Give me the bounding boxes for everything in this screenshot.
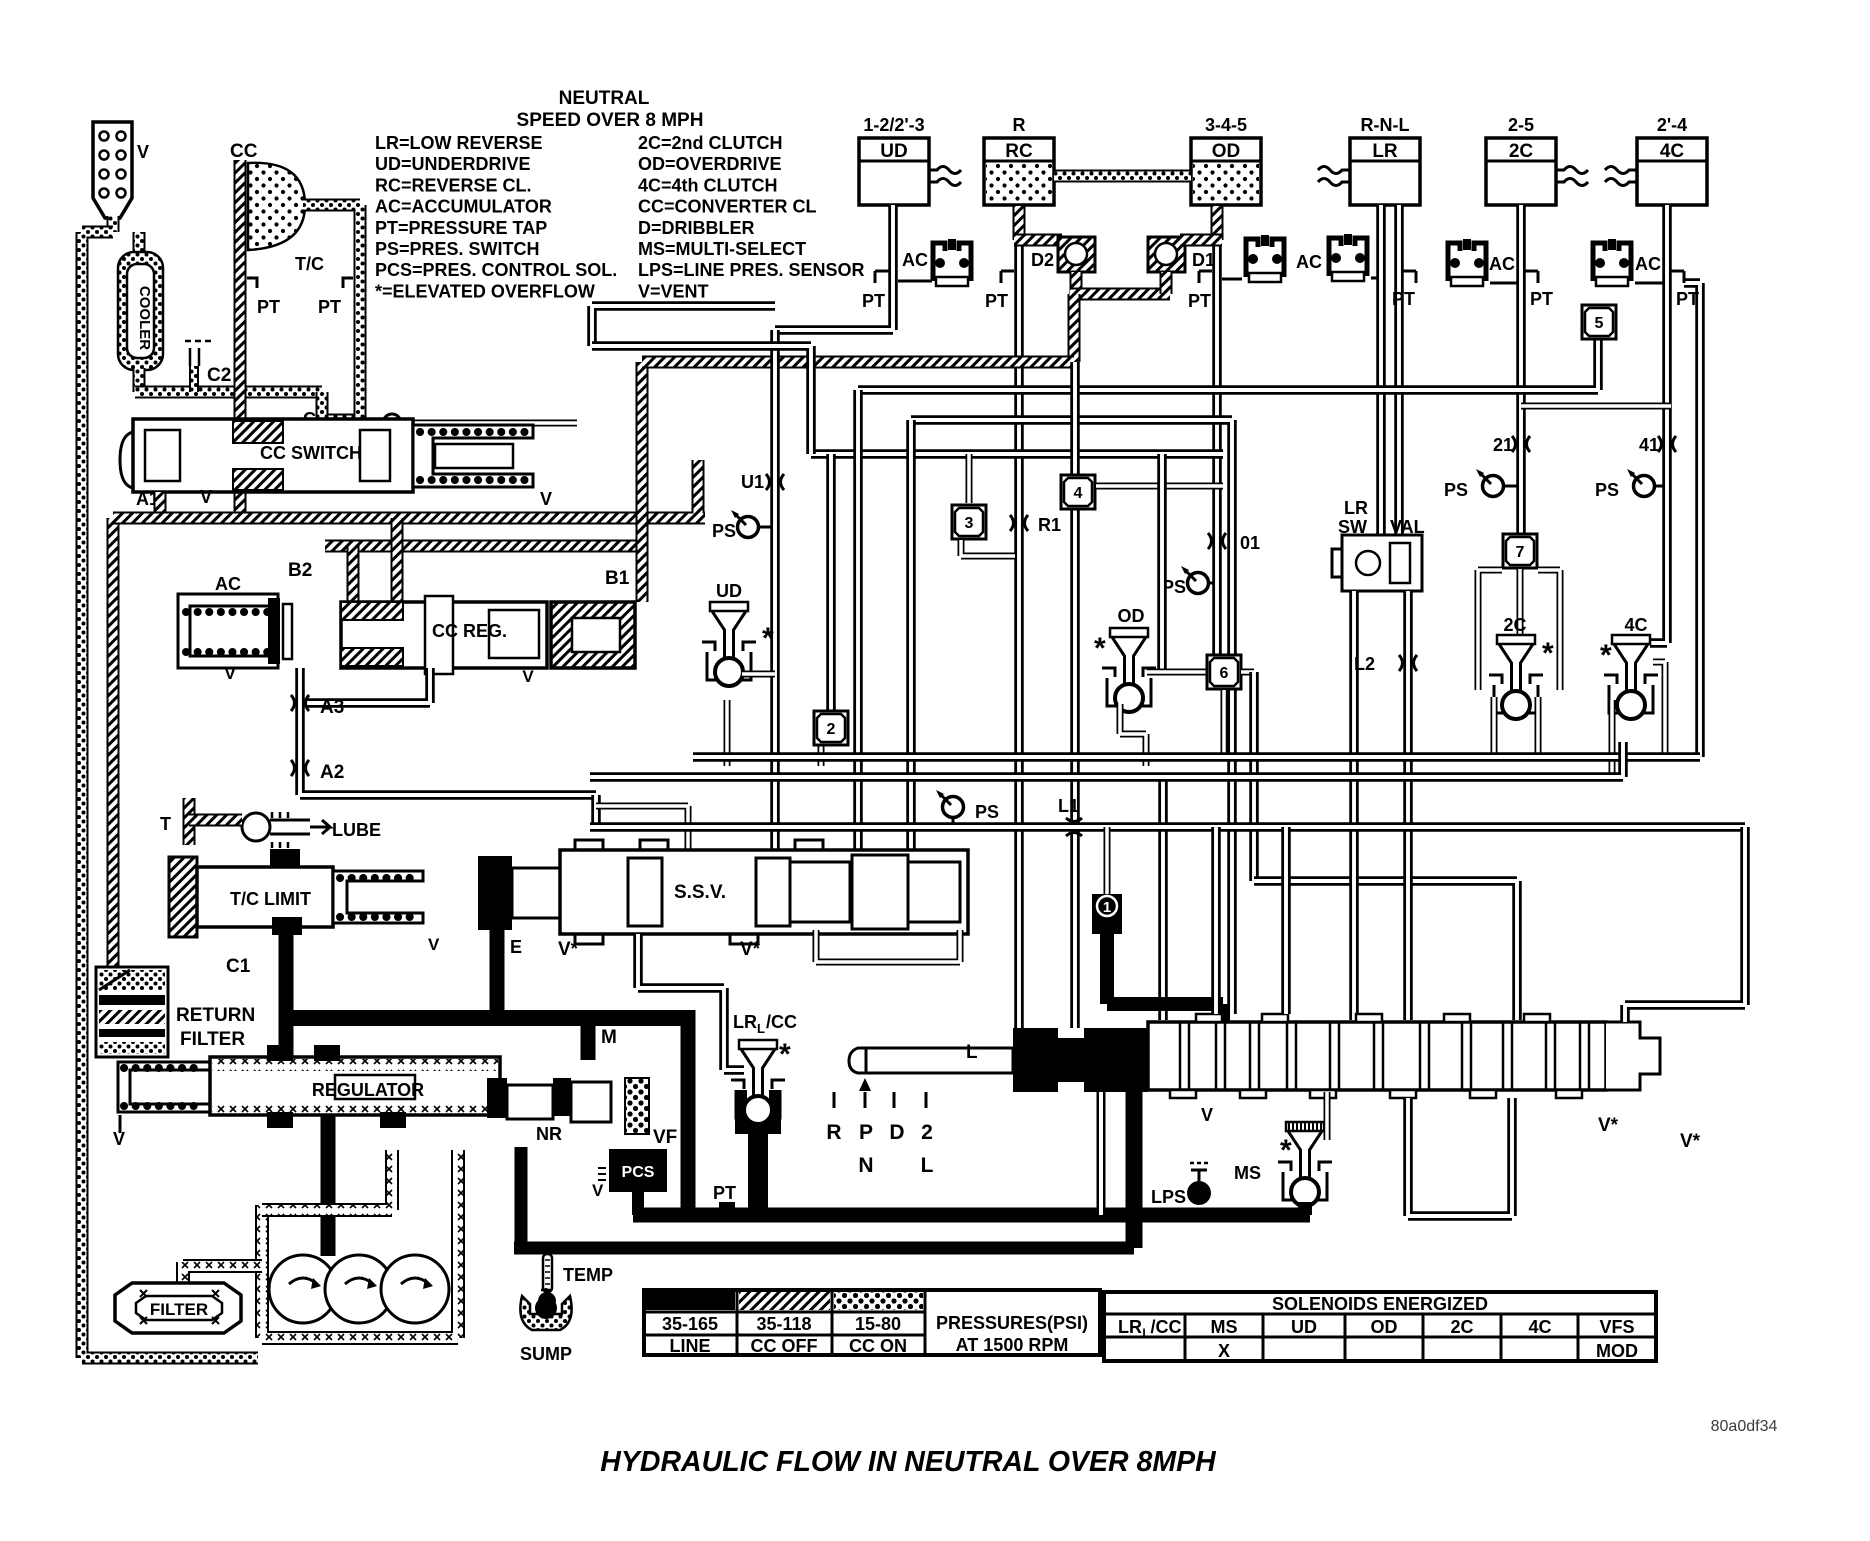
svg-text:NEUTRAL: NEUTRAL [559, 88, 650, 109]
svg-text:S.S.V.: S.S.V. [674, 882, 726, 903]
svg-text:PRESSURES(PSI): PRESSURES(PSI) [936, 1313, 1088, 1333]
svg-text:5: 5 [1595, 315, 1604, 332]
solenoid UD [702, 581, 775, 766]
svg-text:*: * [779, 1038, 791, 1071]
wire left feeder elbow [592, 306, 775, 346]
node L2 [1354, 654, 1417, 674]
lube circuit [160, 812, 381, 848]
vent V* (SSV left) [558, 939, 579, 960]
svg-text:*: * [762, 622, 774, 655]
svg-text:LINE: LINE [669, 1336, 710, 1356]
torque converter CC feed pipe (hatched) [230, 141, 258, 518]
svg-text:PS: PS [1444, 480, 1468, 500]
wire T/C right dotted pipe [303, 205, 360, 440]
wire black band2 [514, 1085, 1134, 1248]
node L (manual valve) [966, 1042, 978, 1063]
svg-text:M: M [601, 1027, 617, 1048]
svg-text:4: 4 [1074, 485, 1083, 502]
legend title [517, 88, 704, 131]
vent V (CC SWITCH right) [540, 489, 552, 509]
vent V* (valve far right) [1680, 1131, 1701, 1152]
vent V* (valve right) [1598, 1115, 1619, 1136]
wire x1163 riser [1158, 777, 1168, 1020]
svg-text:2-5: 2-5 [1508, 115, 1534, 135]
svg-text:PCS=PRES. CONTROL SOL.: PCS=PRES. CONTROL SOL. [375, 260, 617, 280]
wire SSV loop right [816, 930, 960, 962]
svg-text:UD: UD [880, 141, 907, 162]
pipe RC-OD dotted connector [1054, 170, 1191, 183]
wire x911 vertical [906, 420, 916, 855]
svg-text:D: D [889, 1121, 904, 1144]
svg-text:V: V [1201, 1105, 1213, 1125]
valve check 4 [1061, 475, 1095, 509]
svg-text:PS: PS [1595, 480, 1619, 500]
svg-text:L2: L2 [1354, 654, 1375, 674]
svg-text:4C=4th CLUTCH: 4C=4th CLUTCH [638, 175, 778, 195]
svg-text:CC SWITCH: CC SWITCH [260, 443, 362, 463]
svg-text:PT: PT [1530, 289, 1553, 309]
node C [303, 409, 316, 429]
accumulator AC (LR) [1329, 234, 1377, 281]
wire SSV bottom to LRL/CC [638, 934, 744, 1070]
svg-text:RC: RC [1005, 141, 1033, 162]
svg-text:LR: LR [1344, 498, 1368, 518]
svg-text:D2: D2 [1031, 250, 1054, 270]
valve S.S.V. [512, 840, 968, 944]
svg-text:21: 21 [1493, 435, 1513, 455]
node E [510, 937, 522, 957]
pump assembly [269, 1255, 449, 1323]
svg-text:T: T [160, 814, 171, 834]
node A3 [291, 695, 344, 718]
svg-text:2'-4: 2'-4 [1657, 115, 1687, 135]
svg-text:R: R [1013, 115, 1026, 135]
valve check 3 [952, 454, 1015, 556]
svg-text:V*: V* [558, 939, 579, 960]
svg-text:PT: PT [985, 291, 1008, 311]
wire vent stem dotted [107, 216, 120, 232]
svg-text:*: * [1600, 639, 1612, 672]
pressure tap PT (OD) [1188, 271, 1212, 311]
wire x831 vertical [821, 454, 831, 766]
wire pump loop (x-hatched) [262, 1150, 458, 1338]
wire L1 line [590, 822, 1745, 832]
svg-text:CC REG.: CC REG. [432, 621, 507, 641]
svg-text:RC=REVERSE CL.: RC=REVERSE CL. [375, 175, 532, 195]
svg-text:L: L [921, 1154, 934, 1177]
svg-text:CC OFF: CC OFF [751, 1336, 818, 1356]
cooler [118, 232, 163, 392]
wire valve bottom loop [1408, 1098, 1512, 1216]
svg-text:/CC: /CC [1151, 1317, 1182, 1337]
svg-text:80a0df34: 80a0df34 [1711, 1418, 1778, 1435]
svg-text:OD: OD [1371, 1317, 1398, 1337]
svg-text:PT: PT [862, 291, 885, 311]
accumulator AC (2C) [1448, 239, 1517, 286]
svg-text:2C: 2C [1503, 615, 1526, 635]
svg-text:OD: OD [1118, 606, 1145, 626]
wire risers to L1 [1216, 827, 1286, 1014]
sensor LPS [1151, 1163, 1211, 1207]
wire thin black riser [1097, 1092, 1106, 1215]
svg-text:*: * [1542, 637, 1554, 670]
svg-text:AC=ACCUMULATOR: AC=ACCUMULATOR [375, 197, 552, 217]
wire U1 vertical [770, 330, 780, 855]
svg-text:PS: PS [712, 521, 736, 541]
wire RC clutch down (hatched top) [1014, 206, 1062, 1036]
node A1 [136, 489, 159, 509]
sump [520, 1288, 572, 1364]
pressure switch PS (U1) [712, 510, 771, 541]
svg-text:L: L [757, 1021, 765, 1036]
svg-text:3: 3 [965, 515, 974, 532]
solenoids energized table [1104, 1292, 1656, 1361]
pressure tap PT (4C) [1671, 271, 1699, 309]
svg-text:V*: V* [1680, 1131, 1701, 1152]
wire D2 column down [1070, 362, 1080, 1036]
valve regulator right (NR) [487, 1078, 611, 1144]
valve CC SWITCH [120, 419, 533, 492]
valve check 6 [1207, 655, 1254, 881]
svg-text:4C: 4C [1660, 141, 1685, 162]
wire black band1 (line pressure) [633, 1208, 1310, 1223]
svg-text:PT: PT [1676, 289, 1699, 309]
svg-text:D=DRIBBLER: D=DRIBBLER [638, 218, 755, 238]
solenoid OD [1094, 606, 1156, 766]
valve REGULATOR [113, 1045, 500, 1149]
solenoid 2C loop [1478, 570, 1560, 757]
svg-text:D1: D1 [1192, 250, 1215, 270]
svg-text:L1: L1 [1058, 796, 1079, 816]
svg-text:A2: A2 [320, 762, 344, 783]
pressure switch PS (2C) [1444, 469, 1517, 500]
wire x863 vertical [853, 390, 863, 855]
wire 4-link [1096, 483, 1223, 490]
svg-text:41: 41 [1639, 435, 1659, 455]
clutch OD [1191, 115, 1261, 205]
pressure switch PS (OD col) [1162, 566, 1213, 597]
svg-text:MS: MS [1211, 1317, 1238, 1337]
wire LR clutch down (two pipes) [1381, 205, 1399, 535]
node B1 [605, 568, 630, 589]
wire 4-link [1096, 483, 1223, 490]
wire E black vertical [490, 930, 505, 1018]
svg-text:R1: R1 [1038, 515, 1061, 535]
pressure tap PT (line) [713, 1183, 736, 1211]
svg-text:PT: PT [713, 1183, 736, 1203]
svg-text:15-80: 15-80 [855, 1314, 901, 1334]
wire hatched B1 riser [636, 362, 649, 602]
node B2 [288, 560, 312, 581]
svg-text:P: P [859, 1121, 873, 1144]
svg-text:REGULATOR: REGULATOR [312, 1080, 424, 1100]
clutch LR [1318, 115, 1420, 205]
svg-text:7: 7 [1516, 544, 1525, 561]
svg-text:V: V [522, 667, 534, 686]
vent V (CC SWITCH left) [200, 487, 212, 507]
node 41 [1639, 435, 1676, 455]
wire hatched T-stub [189, 798, 242, 845]
svg-text:VAL: VAL [1390, 517, 1425, 537]
node A2 [291, 760, 344, 783]
svg-text:FILTER: FILTER [150, 1300, 208, 1319]
svg-text:V: V [428, 935, 440, 954]
svg-text:2C: 2C [1450, 1317, 1473, 1337]
pressure switch PS (L1) [936, 790, 999, 824]
svg-text:/CC: /CC [766, 1012, 797, 1032]
svg-text:6: 6 [1220, 665, 1229, 682]
wire H3 [811, 449, 1223, 459]
svg-text:C2: C2 [207, 365, 231, 386]
solenoid 4C loop [1600, 615, 1665, 777]
svg-text:PT: PT [1188, 291, 1211, 311]
svg-text:V: V [224, 664, 236, 683]
wire OD clutch down (hatched top) [1180, 206, 1222, 662]
svg-text:LPS: LPS [1151, 1187, 1186, 1207]
svg-text:V: V [137, 142, 149, 162]
svg-text:PT=PRESSURE TAP: PT=PRESSURE TAP [375, 218, 547, 238]
valve check 7 [1503, 534, 1537, 637]
accumulator AC (UD) [902, 239, 971, 286]
svg-text:A3: A3 [320, 697, 344, 718]
svg-text:35-118: 35-118 [756, 1314, 811, 1334]
node 21 [1493, 435, 1530, 455]
node 01 [1208, 533, 1260, 553]
svg-text:B2: B2 [288, 560, 312, 581]
valve S.S.V. black inlet block [478, 856, 512, 930]
svg-text:V: V [200, 487, 212, 507]
accumulator AC (4C) [1593, 239, 1663, 286]
return filter [96, 967, 255, 1057]
svg-text:MOD: MOD [1596, 1341, 1638, 1361]
svg-text:U1: U1 [741, 472, 764, 492]
svg-text:LR: LR [1118, 1317, 1142, 1337]
svg-text:AT 1500 RPM: AT 1500 RPM [956, 1335, 1069, 1355]
svg-text:FILTER: FILTER [180, 1029, 245, 1050]
wire x1162 vertical [1147, 454, 1206, 672]
svg-text:2C=2nd CLUTCH: 2C=2nd CLUTCH [638, 133, 783, 153]
svg-text:LR: LR [733, 1012, 757, 1032]
wire left outer dotted pipe [82, 232, 258, 1358]
svg-text:4C: 4C [1528, 1317, 1551, 1337]
svg-text:T/C: T/C [295, 254, 324, 274]
wire hatched band B2 lower [325, 518, 640, 602]
node L1 [1058, 796, 1082, 836]
svg-text:V: V [592, 1181, 604, 1200]
svg-text:C1: C1 [226, 956, 251, 977]
wire A2 staircase into SSV [596, 795, 688, 852]
vent V (manual valve) [1201, 1105, 1213, 1125]
dribbler C2 [185, 341, 231, 392]
svg-text:NR: NR [536, 1124, 562, 1144]
svg-text:*: * [1094, 632, 1106, 665]
svg-text:L: L [966, 1042, 978, 1063]
svg-text:AC: AC [215, 574, 241, 594]
svg-text:E: E [510, 937, 522, 957]
valve check 2 [814, 711, 848, 745]
wire UD clutch down [775, 205, 893, 330]
pressure tap PT (2C) [1525, 271, 1553, 309]
svg-text:X: X [1218, 1341, 1230, 1361]
svg-text:*=ELEVATED OVERFLOW: *=ELEVATED OVERFLOW [375, 281, 595, 301]
svg-text:R-N-L: R-N-L [1361, 115, 1410, 135]
wire LR SW down [1354, 591, 1408, 1020]
svg-text:LUBE: LUBE [332, 820, 381, 840]
manual valve shift lever positions [826, 1078, 933, 1177]
svg-text:AC: AC [1489, 254, 1515, 274]
svg-text:UD: UD [716, 581, 742, 601]
dribbler D1 [1148, 237, 1215, 272]
svg-text:PS=PRES. SWITCH: PS=PRES. SWITCH [375, 239, 540, 259]
svg-text:N: N [858, 1154, 873, 1177]
clutch UD [859, 115, 961, 205]
valve check 1 (black) [1092, 827, 1122, 934]
svg-text:UD: UD [1291, 1317, 1317, 1337]
svg-text:LR=LOW REVERSE: LR=LOW REVERSE [375, 133, 543, 153]
wire H2 [911, 420, 1232, 1014]
vent assembly top-left [93, 122, 149, 218]
svg-text:MS: MS [1234, 1163, 1261, 1183]
pressure tap PT (UD) [862, 291, 885, 311]
pressure legend table [644, 1290, 1100, 1356]
wire black corner down to PT band [681, 1010, 696, 1215]
svg-text:SOLENOIDS ENERGIZED: SOLENOIDS ENERGIZED [1272, 1294, 1488, 1314]
svg-text:L: L [1142, 1326, 1149, 1340]
svg-text:V*: V* [740, 939, 761, 960]
svg-text:VFS: VFS [1599, 1317, 1634, 1337]
svg-text:V*: V* [1598, 1115, 1619, 1136]
svg-text:PT: PT [257, 297, 280, 317]
svg-text:HYDRAULIC FLOW IN NEUTRAL OVER: HYDRAULIC FLOW IN NEUTRAL OVER 8MPH [600, 1446, 1217, 1478]
vent V* (SSV mid) [740, 939, 761, 960]
pressure tap PT (RC) [985, 271, 1014, 311]
wire converter relief line with check ball [366, 414, 577, 432]
svg-text:PCS: PCS [622, 1164, 655, 1181]
svg-text:AC: AC [902, 250, 928, 270]
filter [115, 1283, 241, 1333]
svg-text:RETURN: RETURN [176, 1005, 255, 1026]
wire H4b [590, 742, 1623, 777]
valve CC REG [341, 596, 547, 686]
svg-text:35-165: 35-165 [662, 1314, 718, 1334]
node C1 [226, 956, 251, 977]
wire UD PT branch / AC shelf [875, 271, 932, 283]
svg-text:OD: OD [1212, 141, 1241, 162]
svg-text:V: V [540, 489, 552, 509]
svg-text:4C: 4C [1624, 615, 1647, 635]
wire 4C outer return pipe [1684, 283, 1700, 757]
node R1 [1010, 515, 1061, 535]
svg-text:1-2/2'-3: 1-2/2'-3 [863, 115, 924, 135]
dribbler D2 [1031, 237, 1095, 272]
svg-text:01: 01 [1240, 533, 1260, 553]
hatched end block (B1) [551, 602, 635, 668]
title [600, 1446, 1217, 1478]
svg-text:CC: CC [230, 141, 258, 162]
temp gauge [538, 1254, 613, 1310]
wire A1 hatched stub [154, 492, 167, 518]
svg-text:MS=MULTI-SELECT: MS=MULTI-SELECT [638, 239, 806, 259]
clutch RC [984, 115, 1054, 205]
accumulator AC left spool [178, 574, 292, 683]
svg-text:PT: PT [318, 297, 341, 317]
clutch 4C [1605, 115, 1707, 205]
document number [1711, 1418, 1778, 1435]
valve T/C LIMIT [169, 849, 440, 954]
wire feeder to H3 [592, 346, 811, 454]
svg-text:OD=OVERDRIVE: OD=OVERDRIVE [638, 154, 782, 174]
torque converter T/C dome [248, 163, 324, 274]
wire right riser elbow [1625, 827, 1745, 1022]
valve manual (bottom long valve) [849, 1014, 1660, 1098]
svg-text:B1: B1 [605, 568, 630, 589]
svg-text:2C: 2C [1509, 141, 1534, 162]
svg-text:PS: PS [975, 802, 999, 822]
wire H7 [693, 752, 1700, 762]
wire D2-D1 hatched link [1070, 272, 1170, 362]
svg-text:LPS=LINE PRES. SENSOR: LPS=LINE PRES. SENSOR [638, 260, 865, 280]
svg-text:R: R [826, 1121, 841, 1144]
svg-text:AC: AC [1296, 252, 1322, 272]
wire hatched long band to D2 [642, 356, 1074, 369]
wire M black stub [588, 1018, 617, 1060]
svg-text:SW: SW [1338, 517, 1367, 537]
wire hatched band B [113, 460, 705, 518]
wire A3/A2 line [300, 668, 596, 795]
wire 2C clutch down [1516, 205, 1526, 535]
wire check1 black L [1107, 934, 1223, 1026]
valve check 5 [1582, 305, 1616, 339]
valve LR SW VAL [1332, 498, 1425, 591]
svg-text:T/C LIMIT: T/C LIMIT [230, 889, 311, 909]
pressure tap PT (T/C right) [318, 278, 353, 317]
svg-text:CC ON: CC ON [849, 1336, 907, 1356]
pressure tap PT (T/C left) [247, 278, 280, 317]
wire y881 crossover [1254, 881, 1517, 1020]
wire filter connection [183, 1262, 262, 1283]
clutch 2C [1486, 115, 1588, 205]
solenoid LRL/CC [731, 1012, 797, 1215]
svg-text:UD=UNDERDRIVE: UD=UNDERDRIVE [375, 154, 531, 174]
svg-text:2: 2 [827, 721, 836, 738]
wire black band main [286, 1010, 688, 1026]
svg-text:COOLER: COOLER [136, 286, 153, 350]
wire dotted horizontal C2 run [135, 386, 322, 399]
svg-text:CC=CONVERTER CL: CC=CONVERTER CL [638, 197, 817, 217]
svg-text:V=VENT: V=VENT [638, 281, 709, 301]
svg-text:LR: LR [1372, 141, 1398, 162]
wire C1 black vertical [279, 918, 294, 1060]
solenoid MS [1234, 1092, 1332, 1215]
svg-text:SPEED OVER 8 MPH: SPEED OVER 8 MPH [517, 110, 704, 131]
wire short 5-link [1521, 403, 1671, 410]
pressure switch PS (4C) [1595, 469, 1663, 500]
svg-text:AC: AC [1635, 254, 1661, 274]
pressure tap PT (LR) [1392, 271, 1416, 309]
wire H1 long [858, 340, 1598, 390]
node U1 [741, 472, 784, 492]
accumulator AC (OD) [1222, 235, 1322, 282]
svg-text:1: 1 [1103, 899, 1111, 916]
wire regulator to pumps black [321, 1115, 336, 1256]
legend abbreviations [375, 133, 865, 301]
svg-text:VF: VF [653, 1127, 677, 1148]
svg-text:2: 2 [921, 1121, 933, 1144]
wire 4C clutch down [1650, 205, 1667, 643]
svg-text:SUMP: SUMP [520, 1344, 572, 1364]
svg-text:3-4-5: 3-4-5 [1205, 115, 1247, 135]
svg-text:TEMP: TEMP [563, 1265, 613, 1285]
